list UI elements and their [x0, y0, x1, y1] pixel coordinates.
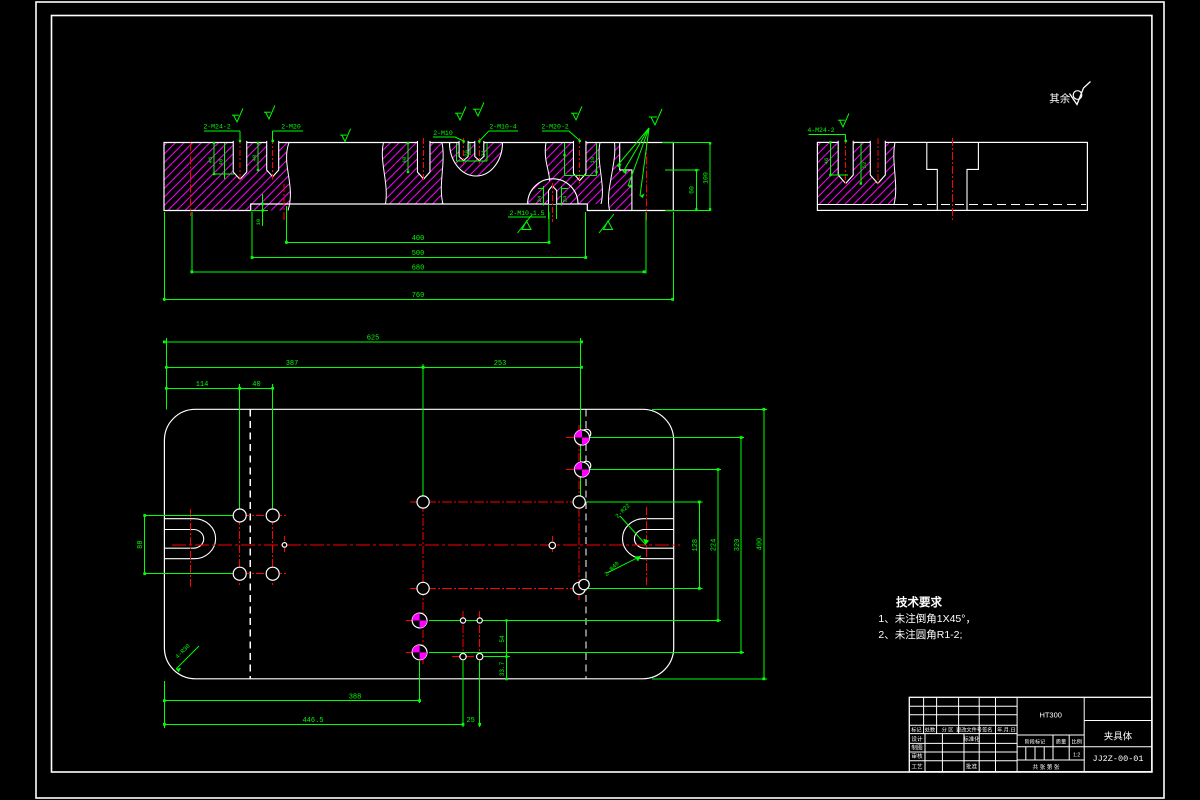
svg-text:2-M24-2: 2-M24-2 [203, 124, 230, 131]
main horizontal centerline [172, 544, 680, 546]
svg-text:10: 10 [255, 219, 262, 226]
svg-text:分 区: 分 区 [942, 726, 954, 734]
svg-text:128: 128 [692, 539, 700, 552]
depth dim hole2 [257, 143, 259, 170]
svg-text:1、未注倒角1X45°，: 1、未注倒角1X45°， [878, 612, 976, 625]
bottom dim extension lines [163, 212, 165, 301]
left group centerlines [189, 509, 191, 587]
hatch zone left [164, 143, 290, 211]
surface mark on top [342, 129, 351, 142]
local section flag 2 [604, 221, 613, 230]
step dim 10 [251, 210, 268, 212]
position targets right column [575, 430, 590, 445]
hidden dashed line left [249, 409, 251, 679]
right U-slot outer [623, 519, 674, 559]
svg-text:审核: 审核 [911, 752, 923, 760]
local section flag 1 [522, 221, 531, 230]
hatch zone 5 (right notch) [608, 143, 631, 211]
svg-text:320: 320 [734, 539, 742, 552]
svg-text:20: 20 [463, 150, 470, 157]
right U-slot inner [634, 530, 673, 549]
centerline bottom hole [551, 183, 553, 222]
svg-text:54: 54 [499, 635, 506, 643]
bolt hole (272.7,573.7) [266, 567, 279, 580]
svg-text:224: 224 [711, 539, 719, 552]
svg-text:标准化: 标准化 [963, 735, 980, 743]
svg-text:400: 400 [412, 235, 425, 243]
bottom tapped hole 2-M10-1.5 [549, 186, 557, 204]
svg-text:其余: 其余 [1049, 92, 1071, 105]
middle/right columns centerlines [422, 490, 424, 664]
svg-text:共 张 第 张: 共 张 第 张 [1032, 763, 1059, 771]
svg-text:46: 46 [207, 157, 214, 164]
plan view: base plate outline [164, 409, 673, 679]
svg-text:设计: 设计 [911, 735, 923, 743]
tapped hole 2-M20-2 right [573, 141, 586, 181]
svg-text:446.5: 446.5 [302, 717, 323, 725]
svg-text:24: 24 [562, 195, 569, 202]
counterbore cavity arc with hatch [450, 143, 503, 177]
svg-text:批准: 批准 [966, 762, 978, 770]
multi leader surface symbol [651, 109, 662, 125]
notch internal lines [620, 143, 632, 211]
svg-text:46: 46 [823, 158, 830, 165]
slot radius labels [620, 516, 646, 545]
corner radius label 4-R30 [176, 646, 199, 669]
svg-text:2-M10-1.5: 2-M10-1.5 [509, 210, 544, 217]
svg-text:JJ2Z-00-01: JJ2Z-00-01 [1092, 754, 1143, 764]
top dims [164, 341, 581, 343]
small hole pairs bottom [460, 618, 465, 623]
right U centerline [645, 507, 647, 586]
svg-text:40: 40 [401, 157, 408, 164]
svg-text:2-M20: 2-M20 [281, 124, 301, 131]
tapped hole 2-M10 cavity B [475, 141, 484, 161]
centerline 2 [283, 184, 285, 220]
tapped hole 2-M24 left [233, 141, 247, 179]
tapped hole 4-M24 B [870, 141, 885, 184]
arch hole dim [543, 186, 545, 206]
bottom arch cavity with hatch [528, 179, 578, 204]
bottom mid dims 54 and 33.7 [506, 621, 508, 680]
roughness symbol with circle [1070, 82, 1091, 105]
svg-text:年.月.日: 年.月.日 [997, 726, 1015, 734]
svg-text:100: 100 [702, 172, 709, 184]
hatch zone 2 [382, 143, 443, 205]
svg-text:625: 625 [367, 335, 380, 343]
svg-text:技术要求: 技术要求 [896, 595, 942, 609]
right vertical dims [698, 502, 700, 588]
tapped hole 2-M20 left [267, 141, 279, 177]
section view 1: fixture body front section [164, 138, 673, 222]
locating hole (423.1,588.4) [417, 582, 429, 594]
svg-text:60: 60 [689, 186, 696, 194]
svg-text:4-M24-2: 4-M24-2 [807, 127, 834, 134]
T-slot centerline [951, 138, 953, 222]
svg-text:114: 114 [196, 381, 209, 389]
tiny center holes [282, 543, 287, 548]
svg-text:400: 400 [757, 538, 765, 551]
locating hole (579.2,588.4) [573, 582, 585, 594]
svg-text:工艺: 工艺 [911, 763, 923, 770]
hole6 dim box [564, 143, 566, 176]
position targets bottom middle [412, 613, 427, 628]
svg-text:更改文件号: 更改文件号 [956, 726, 982, 734]
svg-text:40: 40 [252, 381, 260, 389]
svg-text:处数: 处数 [925, 726, 936, 734]
hidden dashed line [899, 203, 1086, 205]
svg-text:33.7: 33.7 [499, 661, 506, 676]
green extension lines (plan) [165, 338, 167, 409]
svg-text:680: 680 [412, 264, 425, 272]
bolt hole (272.7,515.5) [266, 509, 279, 522]
svg-text:HT300: HT300 [1039, 710, 1062, 719]
cavity holes dim box [456, 143, 458, 161]
centerline right portion [645, 143, 647, 223]
hatch zone section 2 [817, 142, 895, 204]
small holes behind targets [582, 429, 591, 438]
locating hole (579.2,502) [573, 496, 585, 508]
svg-text:18: 18 [589, 157, 596, 164]
section 1 body outline [164, 143, 673, 211]
depth dims section2 [829, 142, 831, 175]
depth dim hole3 [407, 143, 409, 172]
svg-text:2、未注圆角R1-2;: 2、未注圆角R1-2; [878, 628, 962, 641]
svg-text:24: 24 [480, 150, 487, 157]
hidden dashed line right [585, 409, 587, 679]
depth dims hole1 [213, 143, 215, 174]
svg-text:2-M10-4: 2-M10-4 [489, 124, 516, 131]
svg-text:1:2: 1:2 [1073, 753, 1080, 759]
dim 400 [286, 241, 549, 243]
svg-text:500: 500 [412, 250, 425, 258]
svg-text:夹具体: 夹具体 [1104, 731, 1133, 743]
section 2 body outline [817, 142, 1087, 210]
svg-text:388: 388 [349, 693, 362, 701]
tapped hole 2-M20 mid [417, 141, 430, 179]
right side dims 60 and 100 [665, 169, 700, 171]
horizontal ext lines right side [590, 437, 744, 439]
step line section 2 [817, 203, 899, 205]
svg-text:制图: 制图 [911, 744, 923, 752]
svg-text:253: 253 [494, 360, 507, 368]
locating hole (423.1,502) [417, 496, 429, 508]
svg-text:88: 88 [137, 540, 145, 548]
T-slot [927, 142, 979, 210]
svg-text:2-M10: 2-M10 [433, 130, 453, 137]
svg-text:质量: 质量 [1056, 738, 1066, 746]
svg-text:签名: 签名 [982, 726, 992, 734]
left U-slot outer [164, 519, 215, 559]
left U-slot inner [164, 530, 203, 549]
hatch zone 4 [545, 143, 602, 205]
svg-text:阶段标记: 阶段标记 [1025, 738, 1046, 746]
bottom dims [163, 681, 165, 728]
bottom group centerlines [406, 620, 492, 622]
centerline left [189, 143, 191, 217]
tapped hole 2-M10 cavity A [459, 141, 468, 161]
svg-text:40: 40 [251, 155, 258, 162]
svg-text:760: 760 [412, 292, 425, 300]
tapped hole 4-M24 A [838, 141, 853, 184]
dim 680 [192, 271, 644, 273]
dim 760 [164, 298, 672, 300]
svg-text:40: 40 [218, 159, 225, 166]
bolt hole (239.7,573.7) [233, 567, 246, 580]
svg-text:比例: 比例 [1072, 738, 1082, 746]
title block [909, 697, 1152, 771]
dim 500 [252, 257, 586, 259]
svg-text:2-M20-2: 2-M20-2 [541, 124, 568, 131]
left 88 dim [145, 515, 233, 517]
bolt hole (239.7,515.5) [233, 509, 246, 522]
svg-text:25: 25 [466, 717, 474, 725]
section view 2: side section [807, 113, 1087, 221]
svg-text:标记: 标记 [911, 726, 921, 734]
svg-text:24: 24 [536, 195, 543, 202]
svg-text:387: 387 [286, 360, 299, 368]
svg-text:52: 52 [861, 162, 868, 169]
